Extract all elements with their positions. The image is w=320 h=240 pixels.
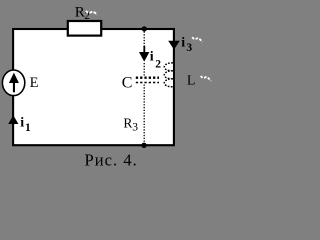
svg-text:3: 3 bbox=[186, 42, 192, 54]
svg-text:3: 3 bbox=[132, 122, 138, 134]
label i2 bbox=[150, 50, 161, 71]
resistor R2 bbox=[68, 21, 101, 36]
tilde mark near i3 bbox=[192, 37, 202, 42]
wire dotted between arrow and capacitor bbox=[143, 63, 145, 76]
svg-text:L: L bbox=[187, 73, 196, 88]
capacitor C bbox=[136, 78, 159, 83]
svg-text:i: i bbox=[20, 115, 24, 130]
svg-text:Рис. 4.: Рис. 4. bbox=[85, 150, 138, 169]
svg-text:E: E bbox=[30, 75, 39, 91]
svg-text:C: C bbox=[122, 75, 133, 92]
svg-text:R: R bbox=[123, 115, 132, 130]
label i3 bbox=[181, 36, 192, 54]
wire dotted between capacitor and bottom node bbox=[143, 85, 145, 144]
inductor L bbox=[164, 63, 173, 87]
tilde mark near L bbox=[201, 76, 211, 81]
wire dotted middle branch upper bbox=[143, 32, 145, 48]
label i1 bbox=[20, 115, 31, 134]
svg-text:i: i bbox=[150, 50, 154, 65]
node top junction bbox=[142, 26, 147, 31]
arrow i2 bbox=[139, 46, 149, 62]
source E bbox=[2, 70, 24, 96]
svg-text:1: 1 bbox=[25, 122, 31, 134]
svg-text:2: 2 bbox=[155, 58, 161, 70]
tilde mark near R2 bbox=[86, 11, 97, 15]
wire loop (main circuit rectangle) bbox=[13, 29, 174, 145]
label R3 bbox=[123, 115, 138, 133]
node bottom junction bbox=[141, 143, 146, 148]
arrow i1 bbox=[8, 115, 18, 124]
svg-text:i: i bbox=[181, 36, 185, 51]
arrow i3 bbox=[168, 41, 180, 50]
